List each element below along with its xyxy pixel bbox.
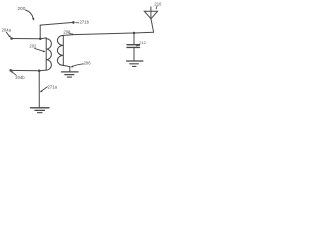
leader arrow for 200: [26, 10, 34, 19]
svg-text:206: 206: [84, 60, 92, 65]
leader arrow for 202: [35, 48, 44, 51]
label 271b: [80, 20, 90, 25]
label 204b: [15, 75, 25, 80]
terminal node 204a: [10, 37, 13, 40]
junction dot A: [39, 37, 42, 40]
label 200: [17, 6, 25, 12]
ground G3 (bottom): [31, 107, 50, 109]
terminal node 204b: [9, 69, 12, 72]
wire: secondary top to antenna corner: [63, 32, 153, 35]
wire: bottom input to junction: [11, 69, 40, 71]
label 206: [84, 60, 92, 65]
transformer T secondary winding: [62, 35, 64, 65]
ground G1 (capacitor): [127, 60, 143, 62]
wire: junction to primary top: [40, 37, 46, 40]
label 212: [139, 40, 146, 45]
wire: junction to primary bottom: [39, 69, 46, 72]
label 204a: [2, 27, 12, 32]
leader arrow for 204a: [6, 32, 9, 36]
svg-text:202: 202: [29, 44, 37, 49]
svg-text:200: 200: [17, 6, 25, 12]
label 208: [63, 30, 71, 35]
svg-text:271a: 271a: [48, 85, 58, 90]
antenna ANT: [151, 19, 154, 32]
wire: left input to junction: [12, 38, 41, 40]
ground G2 (center tap): [62, 71, 79, 73]
svg-text:271b: 271b: [80, 20, 90, 25]
svg-text:208: 208: [63, 30, 71, 35]
leader arrow for 208: [69, 33, 73, 34]
wire: top horizontal to terminal: [40, 22, 73, 25]
wire: secondary bottom to center tap: [63, 65, 70, 66]
junction dot B: [133, 32, 136, 35]
svg-text:204a: 204a: [2, 27, 12, 32]
leader arrow for 206: [72, 64, 83, 67]
label 202: [29, 44, 37, 49]
svg-text:204b: 204b: [15, 75, 25, 80]
svg-text:210: 210: [154, 1, 162, 6]
junction dot C: [38, 69, 41, 72]
leader arrow for 271a: [42, 87, 48, 91]
label 210: [154, 1, 162, 6]
leader arrow for 204b: [13, 72, 17, 75]
terminal node 271b: [72, 21, 75, 24]
capacitor C: [133, 33, 135, 45]
transformer T primary winding: [45, 38, 47, 70]
svg-text:212: 212: [139, 40, 146, 45]
wire: junction down to ground: [38, 71, 40, 107]
label 271a: [48, 85, 58, 90]
wire: riser up: [39, 25, 41, 39]
